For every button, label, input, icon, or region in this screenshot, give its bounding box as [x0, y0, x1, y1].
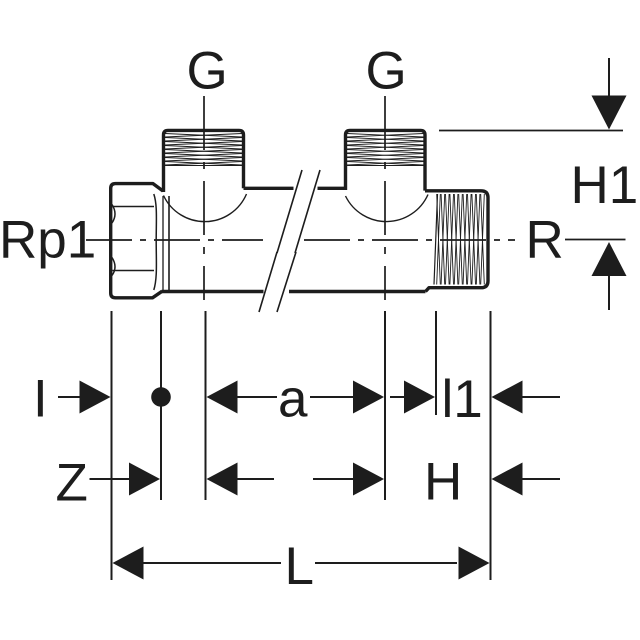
body top edge left segment [244, 187, 294, 190]
dimension H left arrow [353, 463, 384, 496]
dimension Z right tail [237, 478, 274, 480]
dimension H1 top reference line [439, 130, 623, 132]
joint line 2 [168, 196, 170, 291]
body bottom edge right segment [289, 290, 426, 293]
union nut hex face line lower [112, 270, 154, 272]
svg-text:H1: H1 [571, 156, 639, 215]
dimension I arrow [80, 381, 111, 414]
svg-text:L: L [285, 537, 314, 596]
center line horizontal [86, 239, 263, 241]
body top edge right segment [318, 187, 346, 190]
dimension Z arrow [129, 463, 160, 496]
svg-text:Z: Z [56, 454, 88, 513]
dimension l1 left line [390, 396, 404, 398]
union nut hex face line upper [112, 206, 154, 208]
body bottom edge left segment [162, 290, 264, 293]
svg-text:H: H [424, 453, 462, 512]
extension line x2 joint [160, 311, 162, 500]
svg-text:Rp1: Rp1 [0, 211, 96, 270]
center line branch G1 [203, 96, 205, 300]
dimension H right arrow [492, 463, 523, 496]
male thread runout line [434, 194, 438, 285]
dimension H left tail [313, 478, 353, 480]
center line branch G2 [384, 96, 386, 300]
male thread block outline [425, 191, 488, 292]
dimension a right line [310, 396, 353, 398]
extension line x3 branch1 center [205, 311, 207, 500]
dimension H1 upper extension [608, 58, 610, 97]
union nut outline [111, 184, 163, 298]
extension line x1 left end [111, 311, 113, 580]
dimension I datum dot [151, 387, 171, 407]
dimension L right line [315, 562, 457, 564]
dimension a right arrow [353, 381, 384, 414]
svg-text:G: G [187, 42, 228, 101]
union nut left chamfer arc lower [112, 258, 115, 276]
branch port G2 threads [347, 134, 425, 166]
branch port G1 socket arc [164, 194, 247, 222]
extension line x6 right end [490, 311, 492, 580]
svg-text:R: R [526, 211, 564, 270]
dimension Z leader line [90, 478, 130, 480]
extension line x4 branch2 center [384, 311, 386, 500]
union nut right face curve [154, 194, 157, 290]
dimension L left arrow [113, 547, 144, 580]
dimension H1 bottom reference line [565, 239, 626, 241]
branch port G1 outline [164, 130, 244, 192]
dimension l1 left arrow [404, 381, 435, 414]
branch port G2 outline [346, 130, 426, 190]
extension line x5 thread start [435, 311, 437, 415]
branch port G2 socket arc [346, 195, 429, 222]
dimension Z right arrow [207, 463, 238, 496]
dimension l1 right line [522, 396, 560, 398]
dimension l1 right arrow [492, 381, 523, 414]
union nut left chamfer arc upper [112, 205, 115, 224]
svg-text:G: G [366, 42, 407, 101]
dimension L right arrow [459, 547, 490, 580]
svg-text:I: I [33, 370, 48, 429]
dimension H1 lower extension [608, 275, 610, 310]
dimension H right tail [522, 478, 560, 480]
branch port G1 threads [165, 134, 243, 166]
break mark upper pair [277, 170, 320, 253]
break mark lower pair [259, 252, 296, 312]
svg-text:l1: l1 [442, 370, 483, 429]
dimension L left line [143, 562, 281, 564]
male thread hatch [437, 194, 485, 285]
dimension I line [58, 396, 80, 398]
dimension a left arrow [207, 381, 238, 414]
dimension a left line [237, 396, 277, 398]
dimension H1 upper arrow [592, 96, 627, 130]
joint line 1 [162, 196, 164, 291]
dimension H1 lower arrow [592, 242, 627, 276]
svg-text:a: a [278, 370, 308, 429]
